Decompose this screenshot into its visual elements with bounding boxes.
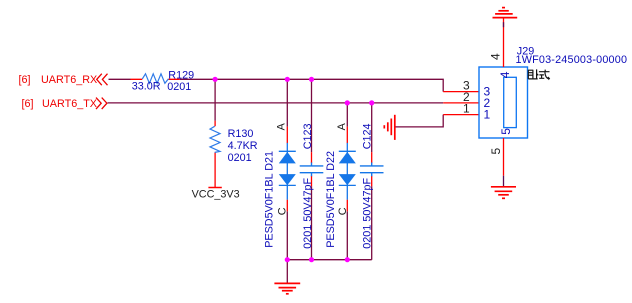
- junction bus-C123: [309, 257, 314, 262]
- connector J29 pin stubs: [443, 92, 479, 115]
- svg-text:A: A: [275, 122, 287, 130]
- svg-text:R129: R129: [168, 69, 194, 81]
- ground (bottom center): [274, 283, 300, 293]
- svg-text:4: 4: [489, 53, 503, 60]
- wire bottom ground bus: [287, 260, 371, 283]
- svg-text:0201: 0201: [167, 81, 191, 93]
- ground (left, rotated): [384, 115, 395, 140]
- svg-text:4: 4: [498, 71, 512, 78]
- svg-text:PESD5V0F1BL D21: PESD5V0F1BL D21: [264, 151, 276, 248]
- junction TX-C124: [369, 100, 374, 105]
- svg-text:VCC_3V3: VCC_3V3: [192, 188, 240, 200]
- wire C123 branch: [311, 79, 313, 259]
- svg-text:C123: C123: [302, 123, 314, 149]
- junction bus-D21: [285, 257, 290, 262]
- junction RX-R130: [213, 77, 218, 82]
- svg-text:0201 50V47pF: 0201 50V47pF: [302, 177, 314, 248]
- svg-text:1: 1: [463, 101, 470, 115]
- wire D22 branch: [346, 103, 348, 260]
- capacitor C124: [360, 152, 384, 186]
- svg-text:0201: 0201: [228, 152, 252, 164]
- junction RX-C123: [309, 77, 314, 82]
- svg-text:33.0R: 33.0R: [132, 81, 161, 93]
- svg-text:UART6_TX: UART6_TX: [42, 98, 97, 110]
- svg-text:0201 50V47pF: 0201 50V47pF: [361, 177, 373, 248]
- svg-text:C: C: [337, 207, 349, 215]
- wire pin1 to GND net: [395, 115, 443, 127]
- svg-text:1WF03-245003-00000: 1WF03-245003-00000: [516, 54, 628, 66]
- svg-text:A: A: [336, 122, 348, 130]
- connector J29 box: [479, 67, 528, 138]
- svg-text:R130: R130: [228, 128, 254, 140]
- wire D21 branch: [286, 79, 288, 259]
- wire C124 branch: [371, 103, 373, 260]
- resistor R130: [210, 79, 220, 187]
- svg-text:4.7KR: 4.7KR: [228, 140, 258, 152]
- svg-text:5: 5: [499, 128, 513, 135]
- diode D21: [279, 127, 296, 212]
- diode D22: [339, 127, 356, 212]
- junction TX-D22: [345, 100, 350, 105]
- junction bus-D22: [345, 257, 350, 262]
- svg-text:UART6_RX: UART6_RX: [41, 74, 97, 86]
- svg-text:5: 5: [489, 148, 503, 155]
- svg-text:PESD5V0F1BL D22: PESD5V0F1BL D22: [325, 151, 337, 248]
- wire UART6_TX net: [108, 102, 444, 104]
- capacitor C123: [300, 152, 324, 186]
- resistor R129: [131, 74, 180, 84]
- label 卧式 (horizontal mount) drawn as strokes: [528, 69, 550, 79]
- port chevron UART6_RX: [97, 74, 108, 86]
- ground (connector bottom): [491, 187, 516, 199]
- svg-text:[6]: [6]: [22, 98, 34, 110]
- connector J29 inner body: [504, 77, 517, 127]
- wire pin5 to bottom ground: [503, 138, 505, 176]
- svg-text:C: C: [276, 207, 288, 215]
- junction RX-D21: [285, 77, 290, 82]
- ground (top, inverted): [493, 8, 518, 18]
- svg-text:1: 1: [484, 107, 491, 121]
- svg-text:[6]: [6]: [19, 74, 31, 86]
- wire UART6_RX net: [109, 79, 444, 91]
- power VCC_3V3 bar: [208, 187, 221, 189]
- wire pin4 to top ground: [503, 18, 505, 67]
- svg-text:C124: C124: [361, 123, 373, 149]
- port chevron UART6_TX: [96, 98, 107, 110]
